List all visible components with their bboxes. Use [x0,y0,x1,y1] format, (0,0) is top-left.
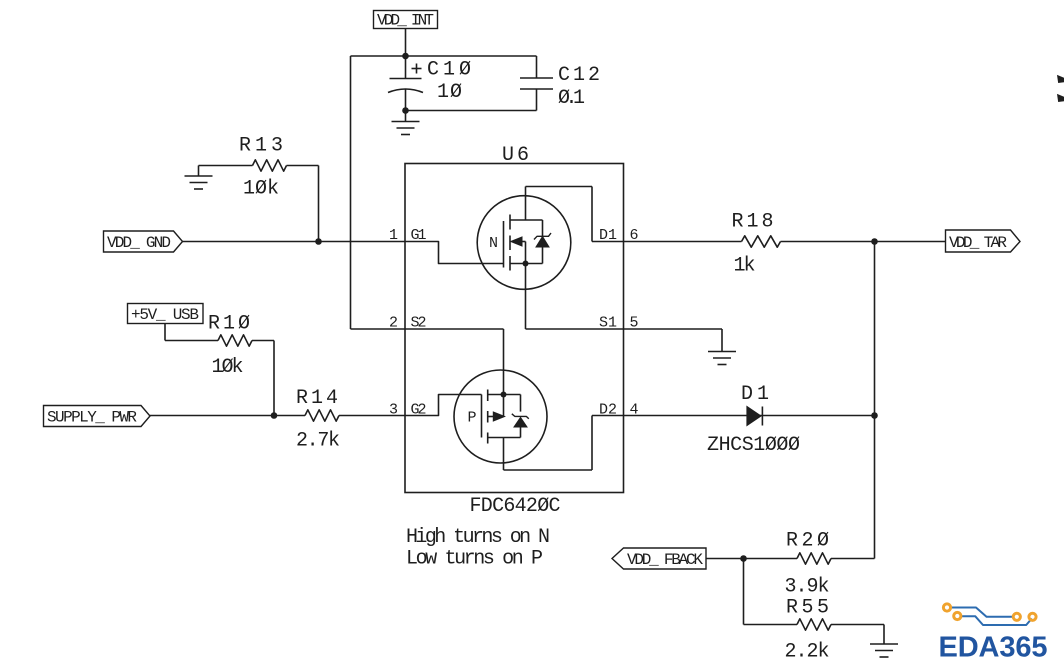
svg-text:3.9k: 3.9k [785,576,830,599]
svg-text:R13: R13 [239,135,283,158]
svg-text:R1Ø: R1Ø [208,313,250,336]
svg-text:VDD_ FBACK: VDD_ FBACK [627,551,703,569]
svg-text:Ø.1: Ø.1 [558,87,585,110]
svg-text:1Øk: 1Øk [243,178,279,201]
svg-text:1Ø: 1Ø [437,81,462,104]
svg-text:P: P [468,410,477,427]
svg-text:C1Ø: C1Ø [427,59,471,82]
svg-text:VDD_ TAR: VDD_ TAR [949,234,1007,252]
svg-text:R18: R18 [732,211,774,234]
svg-text:1k: 1k [734,255,756,278]
svg-text:SUPPLY_ PWR: SUPPLY_ PWR [47,409,137,427]
svg-text:ZHCS1ØØØ: ZHCS1ØØØ [707,434,800,457]
svg-text:R14: R14 [296,387,338,410]
svg-text:High turns on N: High turns on N [406,526,550,549]
svg-text:VDD_ INT: VDD_ INT [377,12,434,30]
svg-text:1: 1 [389,227,398,244]
svg-text:N: N [489,235,498,252]
svg-text:Low turns on P: Low turns on P [406,548,543,571]
svg-text:2.2k: 2.2k [785,641,830,664]
svg-text:EDA365: EDA365 [939,632,1048,664]
svg-text:2: 2 [389,315,398,332]
svg-text:FDC642ØC: FDC642ØC [470,495,561,518]
svg-text:+5V_ USB: +5V_ USB [131,306,199,324]
svg-text:2.7k: 2.7k [296,430,340,453]
svg-text:VDD_ GND: VDD_ GND [107,234,171,252]
svg-text:R55: R55 [786,597,829,620]
svg-text:1Øk: 1Øk [212,356,244,379]
svg-text:C12: C12 [558,64,600,87]
svg-text:R2Ø: R2Ø [786,530,829,553]
